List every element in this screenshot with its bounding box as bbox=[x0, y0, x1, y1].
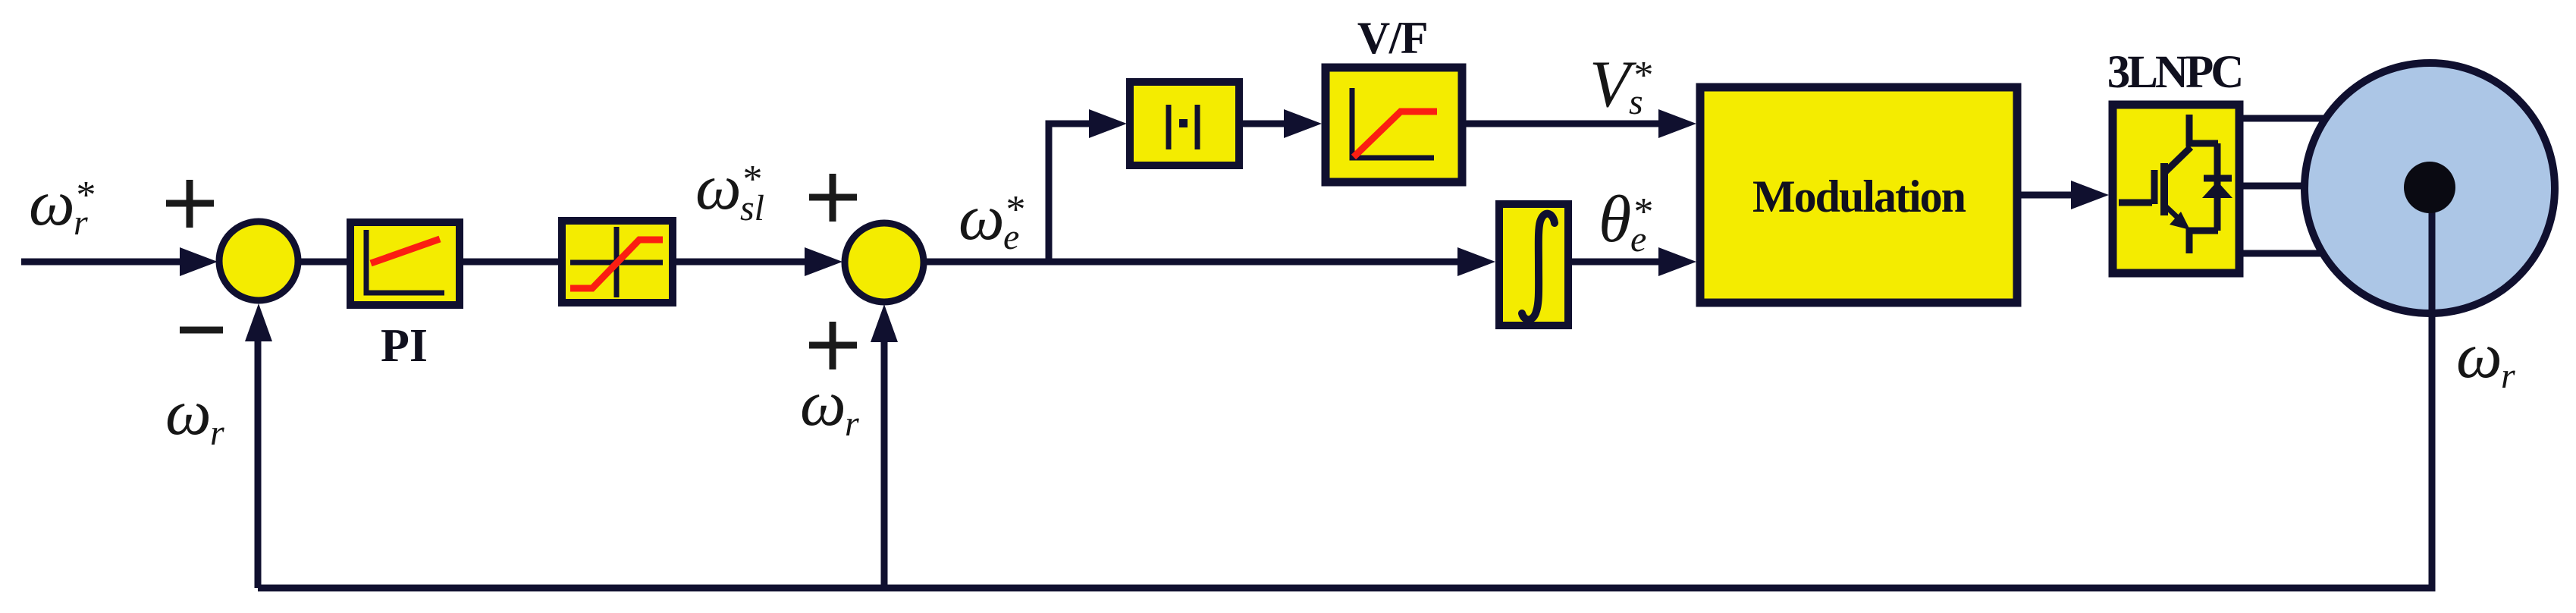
Modulation block bbox=[1700, 87, 2017, 303]
svg-text:e: e bbox=[1003, 217, 1019, 257]
wire saturation to summing junction 2 bbox=[676, 259, 814, 266]
plus sign at junction 1 bbox=[166, 180, 214, 228]
wire Modulation to 3LNPC bbox=[2021, 192, 2081, 199]
collector diagonal bbox=[2165, 147, 2191, 172]
IGBT symbol with antiparallel diode bbox=[2119, 115, 2218, 253]
collector-emitter bar bbox=[2160, 163, 2168, 215]
svg-text:ω: ω bbox=[959, 181, 1005, 253]
wire abs to V/F bbox=[1243, 121, 1293, 127]
label omega_r_star input bbox=[29, 166, 94, 243]
emitter node / bottom stub bbox=[2189, 231, 2218, 253]
svg-text:r: r bbox=[2501, 356, 2515, 396]
saturation block bbox=[562, 221, 673, 303]
svg-text:V/F: V/F bbox=[1357, 13, 1427, 63]
motor circle bbox=[2305, 63, 2555, 313]
motor hub dot bbox=[2404, 162, 2455, 213]
svg-text:Modulation: Modulation bbox=[1752, 171, 1966, 222]
V/F block bbox=[1326, 68, 1462, 182]
minus sign at junction 1 bbox=[180, 327, 223, 334]
emitter diagonal bbox=[2166, 206, 2179, 219]
svg-text:ω: ω bbox=[165, 376, 212, 448]
3LNPC inverter block bbox=[2113, 105, 2239, 273]
svg-text:ω: ω bbox=[2456, 319, 2502, 391]
wire PI to saturation bbox=[463, 259, 561, 266]
emitter arrowhead bbox=[2170, 212, 2190, 230]
label omega_sl_star bbox=[695, 150, 764, 228]
label omega_e_star bbox=[959, 181, 1024, 257]
wire junction2 to integrator bbox=[923, 259, 1467, 266]
label V_s_star bbox=[1589, 48, 1652, 122]
svg-text:θ: θ bbox=[1599, 183, 1631, 256]
gate bar bbox=[2151, 170, 2158, 204]
svg-text:sl: sl bbox=[740, 188, 764, 228]
svg-text:PI: PI bbox=[381, 320, 428, 372]
wire V/F to Modulation bbox=[1466, 121, 1668, 127]
top stub bbox=[2189, 115, 2218, 143]
diode branch vertical bbox=[2214, 143, 2221, 231]
plus sign lower at junction 2 bbox=[809, 322, 857, 369]
feedback wire up into junction 1 bbox=[255, 326, 262, 588]
label theta_e_star bbox=[1599, 183, 1652, 259]
svg-text:e: e bbox=[1630, 219, 1646, 259]
plus sign upper at junction 2 bbox=[809, 174, 857, 222]
diode cathode bar bbox=[2204, 175, 2232, 182]
integrator block bbox=[1499, 204, 1568, 325]
motor shaft line inside circle bbox=[2429, 190, 2436, 313]
svg-text:r: r bbox=[74, 203, 88, 243]
svg-text:r: r bbox=[845, 404, 859, 444]
branch wire up to absolute-value block bbox=[1049, 124, 1098, 262]
svg-text:ω: ω bbox=[29, 166, 75, 239]
wire integrator to Modulation bbox=[1568, 259, 1668, 266]
svg-text:s: s bbox=[1629, 82, 1643, 122]
feedback arrow up into junction 2 bbox=[881, 326, 888, 588]
svg-text:ω: ω bbox=[695, 150, 742, 223]
absolute value block bbox=[1130, 82, 1239, 165]
svg-text:3LNPC: 3LNPC bbox=[2107, 47, 2242, 98]
summing junction 1 bbox=[219, 222, 298, 300]
svg-text:r: r bbox=[210, 413, 224, 453]
label omega_r below junction 2 bbox=[800, 366, 859, 444]
svg-text:ω: ω bbox=[800, 366, 846, 439]
three phase lines to motor bbox=[2239, 115, 2343, 122]
PI block bbox=[350, 222, 460, 305]
summing junction 2 bbox=[845, 223, 924, 302]
gate lead bbox=[2119, 200, 2152, 206]
wire junction1 to PI bbox=[297, 259, 350, 266]
label omega_r at motor bbox=[2456, 319, 2515, 396]
motor shaft feedback wire bbox=[258, 190, 2432, 588]
label omega_r left feedback bbox=[165, 376, 224, 453]
wire input to summing junction 1 bbox=[21, 259, 190, 266]
diode triangle bbox=[2202, 181, 2232, 198]
